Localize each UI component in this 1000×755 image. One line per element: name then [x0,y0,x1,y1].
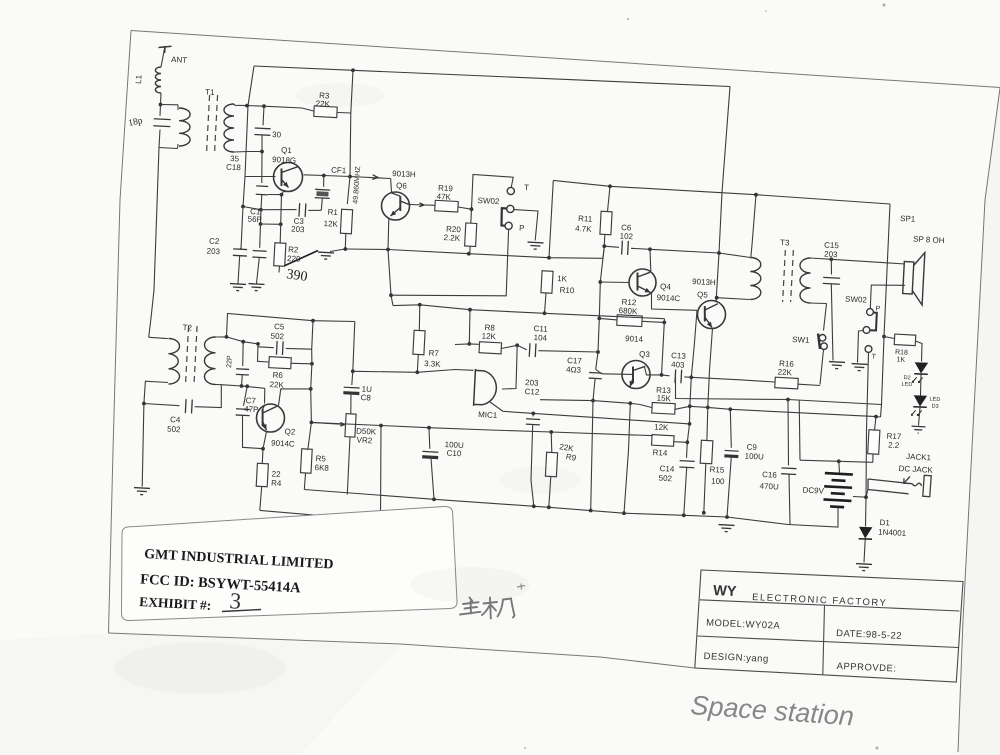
wire R9 bottom lead [549,477,551,508]
junction Q5 collector [715,296,719,300]
junction C11 left [515,343,519,347]
svg-text:1N4001: 1N4001 [878,528,907,538]
wire R17 top lead [875,417,877,430]
svg-text:47P: 47P [244,405,259,415]
svg-text:C16: C16 [762,470,778,480]
svg-text:ANT: ANT [171,55,188,65]
capacitor C11 [529,343,536,357]
transformer T2 core [185,326,188,386]
wire Q2 emitter lead [262,432,266,464]
svg-text:SP 8 OH: SP 8 OH [913,235,945,246]
resistor R5 [300,449,312,474]
wire T2 primary bottom [144,381,168,403]
wire Q6 emitter down [387,219,390,250]
svg-text:6K8: 6K8 [314,463,329,473]
wire to C11 [517,345,527,349]
svg-text:R5: R5 [315,454,326,464]
svg-text:C14: C14 [659,464,675,474]
wire wiper link [311,422,341,424]
junction C9 top [728,407,732,411]
wire to C1 [260,210,263,225]
capacitor C12 [526,419,540,425]
svg-text:Q1: Q1 [281,146,293,156]
svg-text:T2: T2 [182,323,192,333]
svg-text:R14: R14 [652,448,668,458]
wire L1 to tank [160,93,163,105]
wire C17 bottom lead [593,378,595,400]
wire MIC out [490,402,690,424]
sticker label [122,506,458,620]
svg-text:D3: D3 [931,404,938,410]
switch SW1 lever [818,334,820,350]
wire C3 to CF1 [308,209,321,211]
junction Q3 emitter bottom [622,511,626,515]
junction C14 bottom [682,513,686,517]
wire C1 to R2 link [261,223,281,225]
wire rail to R11 bottom [603,246,604,258]
svg-text:9018G: 9018G [272,155,296,165]
exhibit underline [222,610,261,612]
svg-text:403: 403 [671,360,685,370]
wire R6 right lead [291,362,312,365]
svg-text:100U: 100U [744,452,764,462]
wire left line down to T2 [149,148,159,338]
svg-text:100: 100 [711,477,725,487]
wire R14 right lead [674,441,688,444]
wire cap chain [261,135,263,183]
switch SW1 contact 2 [821,343,828,350]
svg-text:56P: 56P [247,215,262,225]
potentiometer VR2 wiper arrow [340,423,345,427]
svg-text:102: 102 [619,232,633,242]
svg-text:CF1: CF1 [331,166,347,176]
wire C8 top lead [352,371,353,385]
svg-text:C18: C18 [226,163,242,173]
svg-text:390: 390 [285,267,308,285]
paper sheet right edge [958,88,1000,752]
junction Q4 collector node [648,247,652,251]
resistor R8 [479,342,502,354]
switch SW1 contact 1 [819,335,826,342]
junction R13 V5 [688,404,692,408]
wire R18 to D2 [916,341,923,362]
svg-text:R11: R11 [578,214,593,224]
junction R2 top [279,222,283,226]
transformer T3 primary winding [750,258,761,300]
wire D2 to D3 [920,375,923,396]
svg-text:9013H: 9013H [692,277,716,287]
svg-text:MIC1: MIC1 [478,410,498,420]
wire R20 top lead [470,209,473,223]
svg-text:4.7K: 4.7K [575,224,593,234]
transistor Q1 9018G [274,163,303,192]
junction collector line [348,175,352,179]
title block frame [695,570,963,682]
svg-text:22K: 22K [269,380,284,390]
wire V3 bias chain [596,246,605,369]
scan smudge 4 [295,83,385,107]
wire T1 secondary bottom [234,151,262,154]
junction rail top [245,104,249,108]
resistor R15 [700,440,713,464]
svg-text:C10: C10 [446,449,462,459]
wire T3 secondary bottom [809,302,827,305]
resistor R1 [340,209,352,234]
wire to SW1 [824,304,827,331]
wire to C6 [604,246,619,247]
wire emitter down to R2 [280,195,283,225]
wire R20 bottom lead [469,246,470,254]
junction C16 top [786,398,790,402]
junction C1 wire [259,208,263,212]
wire to D1 [865,497,868,526]
wire R3 right lead [338,112,351,115]
junction R18 left [882,335,886,339]
wire R15 top lead [706,407,709,440]
ground SW02 [527,242,543,249]
wire Q6 emitter to lower rail [388,250,393,306]
junction P line [389,293,393,297]
switch SW02b contact T [865,346,872,353]
junction R11 top [608,184,612,188]
svg-text:L1: L1 [134,74,143,84]
ground C2 [230,284,246,291]
svg-text:R6: R6 [272,371,283,381]
wire Q1 collector to Q6 base [304,175,391,179]
svg-text:680K: 680K [618,306,638,316]
wire Q5 emitter down [708,328,713,407]
transformer T1 primary winding [179,108,190,146]
wire rail down to Q3 collector [662,319,665,375]
transistor Q6 9013H [382,192,410,220]
wire R2 top lead [279,224,282,243]
svg-text:LED: LED [901,382,912,389]
svg-text:12K: 12K [481,332,496,342]
junction R1 bottom [343,247,347,251]
junction 22P top [241,340,245,344]
svg-text:R18: R18 [895,349,908,357]
svg-text:1K: 1K [896,357,905,364]
wire T1 primary [177,105,179,110]
wire CF1 bottom lead [321,198,322,210]
svg-text:T: T [524,183,529,192]
wire R11 top lead [608,186,611,211]
wire R5 top lead [306,448,309,450]
wire C9 bottom lead [727,457,731,517]
svg-text:SW02: SW02 [845,295,868,305]
strike through 220 [285,251,318,266]
wire lower left top link [227,314,355,337]
junction secondary bottom [260,150,264,154]
wire mid to ground [858,331,864,363]
capacitor C16 [781,468,796,475]
capacitor C1 [252,251,266,258]
wire emitter to bypass cap [268,194,282,196]
wire Q3 collector lead [645,367,662,375]
wire B+ rail [553,180,890,204]
scan speck 5 [524,747,526,749]
junction Q2 collector [309,387,313,391]
wire SW1 to R16 [820,350,824,385]
junction R14 right [685,440,689,444]
svg-text:2.2K: 2.2K [443,233,461,243]
svg-text:Q5: Q5 [697,290,709,300]
scan mark plus [517,584,525,590]
junction W1 R15 [706,406,710,410]
svg-text:502: 502 [270,332,284,342]
wire C2 top lead [239,248,242,249]
resistor R13 [652,403,676,415]
node antenna tank top [159,103,163,107]
capacitor C3 [299,203,306,217]
junction C5 vertical top [311,319,315,323]
junction emitter [280,193,284,197]
svg-text:R4: R4 [271,479,282,489]
junction R7 MIC [415,370,419,374]
transformer T3 core [783,250,786,302]
svg-text:SP1: SP1 [900,214,916,224]
wire R13 left lead [630,403,651,407]
resistor R20 [465,223,477,247]
wire R4 return loop [260,426,381,521]
switch SW02 contact mid [507,205,514,212]
wire 18p to T1 primary bottom [159,130,160,148]
wire C9 top lead [730,409,731,448]
wire T3 secondary top to speaker [811,258,906,264]
svg-text:SW02: SW02 [477,196,500,206]
svg-text:9014C: 9014C [271,439,295,449]
wire cap chain to C1 node [260,195,263,210]
wire mid contact to ground [514,210,538,241]
junction CF1 top [322,174,326,178]
wire Q4 base lead [600,281,629,284]
scan speck 3 [765,10,767,12]
junction D1 top [864,495,868,499]
transformer T1 core [214,95,217,155]
transistor Q5 9013H [698,301,726,329]
diode D1 1N4001 [859,527,873,539]
wire RF line to T3 [716,87,730,303]
wire R4 bottom lead [260,487,262,511]
wire battery plus lead [838,461,841,473]
capacitor C17 [589,372,602,378]
svg-text:12K: 12K [323,219,338,229]
transistor Q2 9014C [257,404,285,432]
wire C4 right up [195,385,222,408]
wire RX left rail [241,66,254,249]
node R3 left [262,104,266,108]
wire R8 left lead [455,343,479,346]
svg-text:1K: 1K [557,274,568,284]
scan smudge 3 [500,466,580,494]
svg-text:DC JACK: DC JACK [898,464,933,475]
wire R9 top lead [550,432,553,453]
handwriting zhu ji [460,598,515,619]
svg-text:502: 502 [167,425,181,435]
junction T3 feed [754,193,758,197]
capacitor C2 [233,249,247,256]
junction V5 [688,422,692,426]
resistor R3 [314,106,338,118]
wire R3 left lead [264,106,314,111]
scan smudge 1 [115,642,285,694]
svg-text:4Ω3: 4Ω3 [566,365,582,375]
svg-text:Q3: Q3 [639,350,651,360]
ground D1 [856,564,872,571]
antenna ANT [159,46,172,53]
junction 22P bottom [240,384,244,388]
svg-text:R2: R2 [288,245,299,255]
capacitor C5 [276,341,283,355]
junction R9 top [549,430,553,434]
svg-text:Q6: Q6 [396,181,408,191]
wire C17 Q3 emitter link [540,400,630,404]
wire R1 bottom lead [344,234,347,250]
wire C11 right lead [538,351,598,352]
wire Q2 collector vertical [308,321,313,449]
transformer T1 secondary winding [224,104,234,152]
wire rail drop to R10 [549,180,553,257]
wire T2 to ground [142,404,144,487]
wire T3 primary bottom to Q5 collector [717,298,750,300]
wire to T3 primary top [650,249,751,257]
junction C9 ground [725,515,729,519]
wire R11 bottom lead [603,235,606,247]
scan speck 1 [883,4,886,7]
wire R10 bottom lead [545,293,547,313]
svg-text:C9: C9 [746,443,757,453]
svg-text:D2: D2 [903,375,910,381]
junction R12 right [662,321,666,325]
svg-text:502: 502 [658,474,672,484]
wire C8 to MIC [353,370,474,373]
scan speck 4 [875,746,878,749]
wire Q3 emitter to rail [624,403,630,513]
wire R16 right lead [799,384,821,385]
wire Q3 base lead [602,373,633,376]
junction Q3 collector [660,373,664,377]
wire Q2 collector lead [279,389,311,406]
resistor R7 [413,330,425,355]
svg-text:C2: C2 [209,237,220,247]
wire R8 vertical [468,310,471,344]
wire R7 top lead [418,305,421,331]
junction R8 left [467,342,471,346]
wire C6 to Q4 collector [631,248,650,249]
junction base wire [241,205,245,209]
resistor R12 [617,315,643,327]
wire T2 primary top [149,337,168,338]
junction Q3 emitter [628,401,632,405]
ground LEDs [911,426,925,433]
svg-text:203: 203 [291,225,305,235]
inductor L1 [155,67,161,93]
scan smudge 2 [410,567,530,603]
scan tint right margin [958,88,1000,755]
capacitor C6 [622,241,629,255]
svg-text:15K: 15K [656,394,671,404]
junction R7 top [418,303,422,307]
junction R12 left [597,317,601,321]
wire C13 to R16 [691,377,774,382]
wire speaker return to P [870,285,905,309]
junction C11 right [596,350,600,354]
paper sheet top edge [131,31,1000,88]
junction C13 right [689,375,693,379]
resistor R11 [600,211,612,235]
LED D2 [912,362,928,383]
junction C6 R11 [602,244,606,248]
wire Q6 base drop [390,179,393,193]
wire Q4 emitter to Q5 base [652,294,698,311]
svg-text:12K: 12K [654,423,669,433]
wire R6 left lead [258,344,269,362]
LED D3 [911,395,927,416]
svg-text:DC9V: DC9V [802,486,824,496]
junction R6 C5 right [310,362,314,366]
signal arrow 2 [419,203,424,207]
wire Q1 emitter [282,190,285,195]
wire Q5 base down to C13 [691,310,697,377]
signal arrow [372,175,378,180]
junction C5 left [256,342,260,346]
junction C4 [142,402,146,406]
switch SW02 lever [502,208,508,226]
wire T1 primary bottom [159,148,178,149]
wire R17 bottom lead [872,454,874,462]
switch SW02b contact mid [863,327,870,334]
capacitor 22P [236,369,249,375]
svg-text:9013H: 9013H [392,169,416,179]
wire battery plus to C16 rail [798,400,801,460]
svg-text:P: P [519,224,525,233]
junction C8 top [351,369,355,373]
junction R17 top [874,415,878,419]
wire R2 bottom stub [278,266,281,273]
wire to T1 primary top [161,104,179,106]
junction C10 top [427,426,431,430]
wire C1 to ground [257,258,260,284]
transformer T2 primary winding [169,339,180,385]
junction C15 top [829,257,833,261]
svg-text:T3: T3 [780,238,790,248]
wire Q1 base [245,176,276,178]
wire R19 to junction [458,207,472,209]
capacitor C14 [679,461,694,468]
wire jack sleeve [853,489,868,497]
wire Q2 base drop [264,388,266,403]
wire B+ down to W1 [881,204,891,417]
svg-text:3.3K: 3.3K [424,359,442,369]
junction C12 top [531,412,535,416]
svg-text:203: 203 [206,247,220,257]
wire C7 to emitter [243,415,264,448]
resistor VR2 D50K potentiometer [345,414,356,437]
wire to ground stub [330,249,345,252]
svg-text:WY: WY [713,583,737,600]
junction R8 vertical [468,308,472,312]
wire R5 bottom lead [304,474,305,490]
crystal CF1 [315,189,330,198]
svg-text:Q2: Q2 [284,427,296,437]
wire battery minus to rail [788,508,838,527]
svg-text:2.2: 2.2 [888,441,900,451]
wire lower section top rail [393,305,665,319]
switch SW02 contact T [507,187,514,194]
transistor Q3 9014 [622,361,650,389]
svg-text:9014C: 9014C [656,293,680,303]
wire R3 vertical to R1 [347,70,353,204]
